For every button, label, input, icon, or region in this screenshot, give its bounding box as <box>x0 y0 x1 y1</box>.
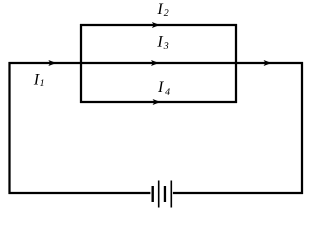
wire main horizontal right segment <box>235 62 303 64</box>
wire main horizontal I3 segment <box>80 62 237 64</box>
label I4 <box>158 82 170 95</box>
arrowhead I3 <box>151 60 159 66</box>
battery cell plate tall 1 <box>158 181 160 208</box>
arrowhead I4 <box>153 99 161 105</box>
arrowhead I2 <box>152 22 160 28</box>
wire bottom right segment <box>173 192 303 194</box>
battery cell plate short 2 <box>164 186 166 202</box>
wire inner right vertical <box>235 24 237 103</box>
arrowhead I1 <box>48 60 56 66</box>
battery cell plate short 1 <box>152 186 154 202</box>
wire main horizontal I1 segment <box>9 62 82 64</box>
wire outer left vertical <box>8 62 10 194</box>
battery cell plate tall 2 <box>171 181 173 208</box>
wire bottom left segment <box>9 192 151 194</box>
wire outer right vertical <box>301 62 303 194</box>
wire inner left vertical <box>80 24 82 103</box>
wire top branch I2 <box>80 24 237 26</box>
label I2 <box>157 4 168 16</box>
label I1 <box>34 74 44 86</box>
label I3 <box>157 36 168 49</box>
wire bottom branch I4 <box>80 101 237 103</box>
arrowhead main right <box>264 60 272 66</box>
